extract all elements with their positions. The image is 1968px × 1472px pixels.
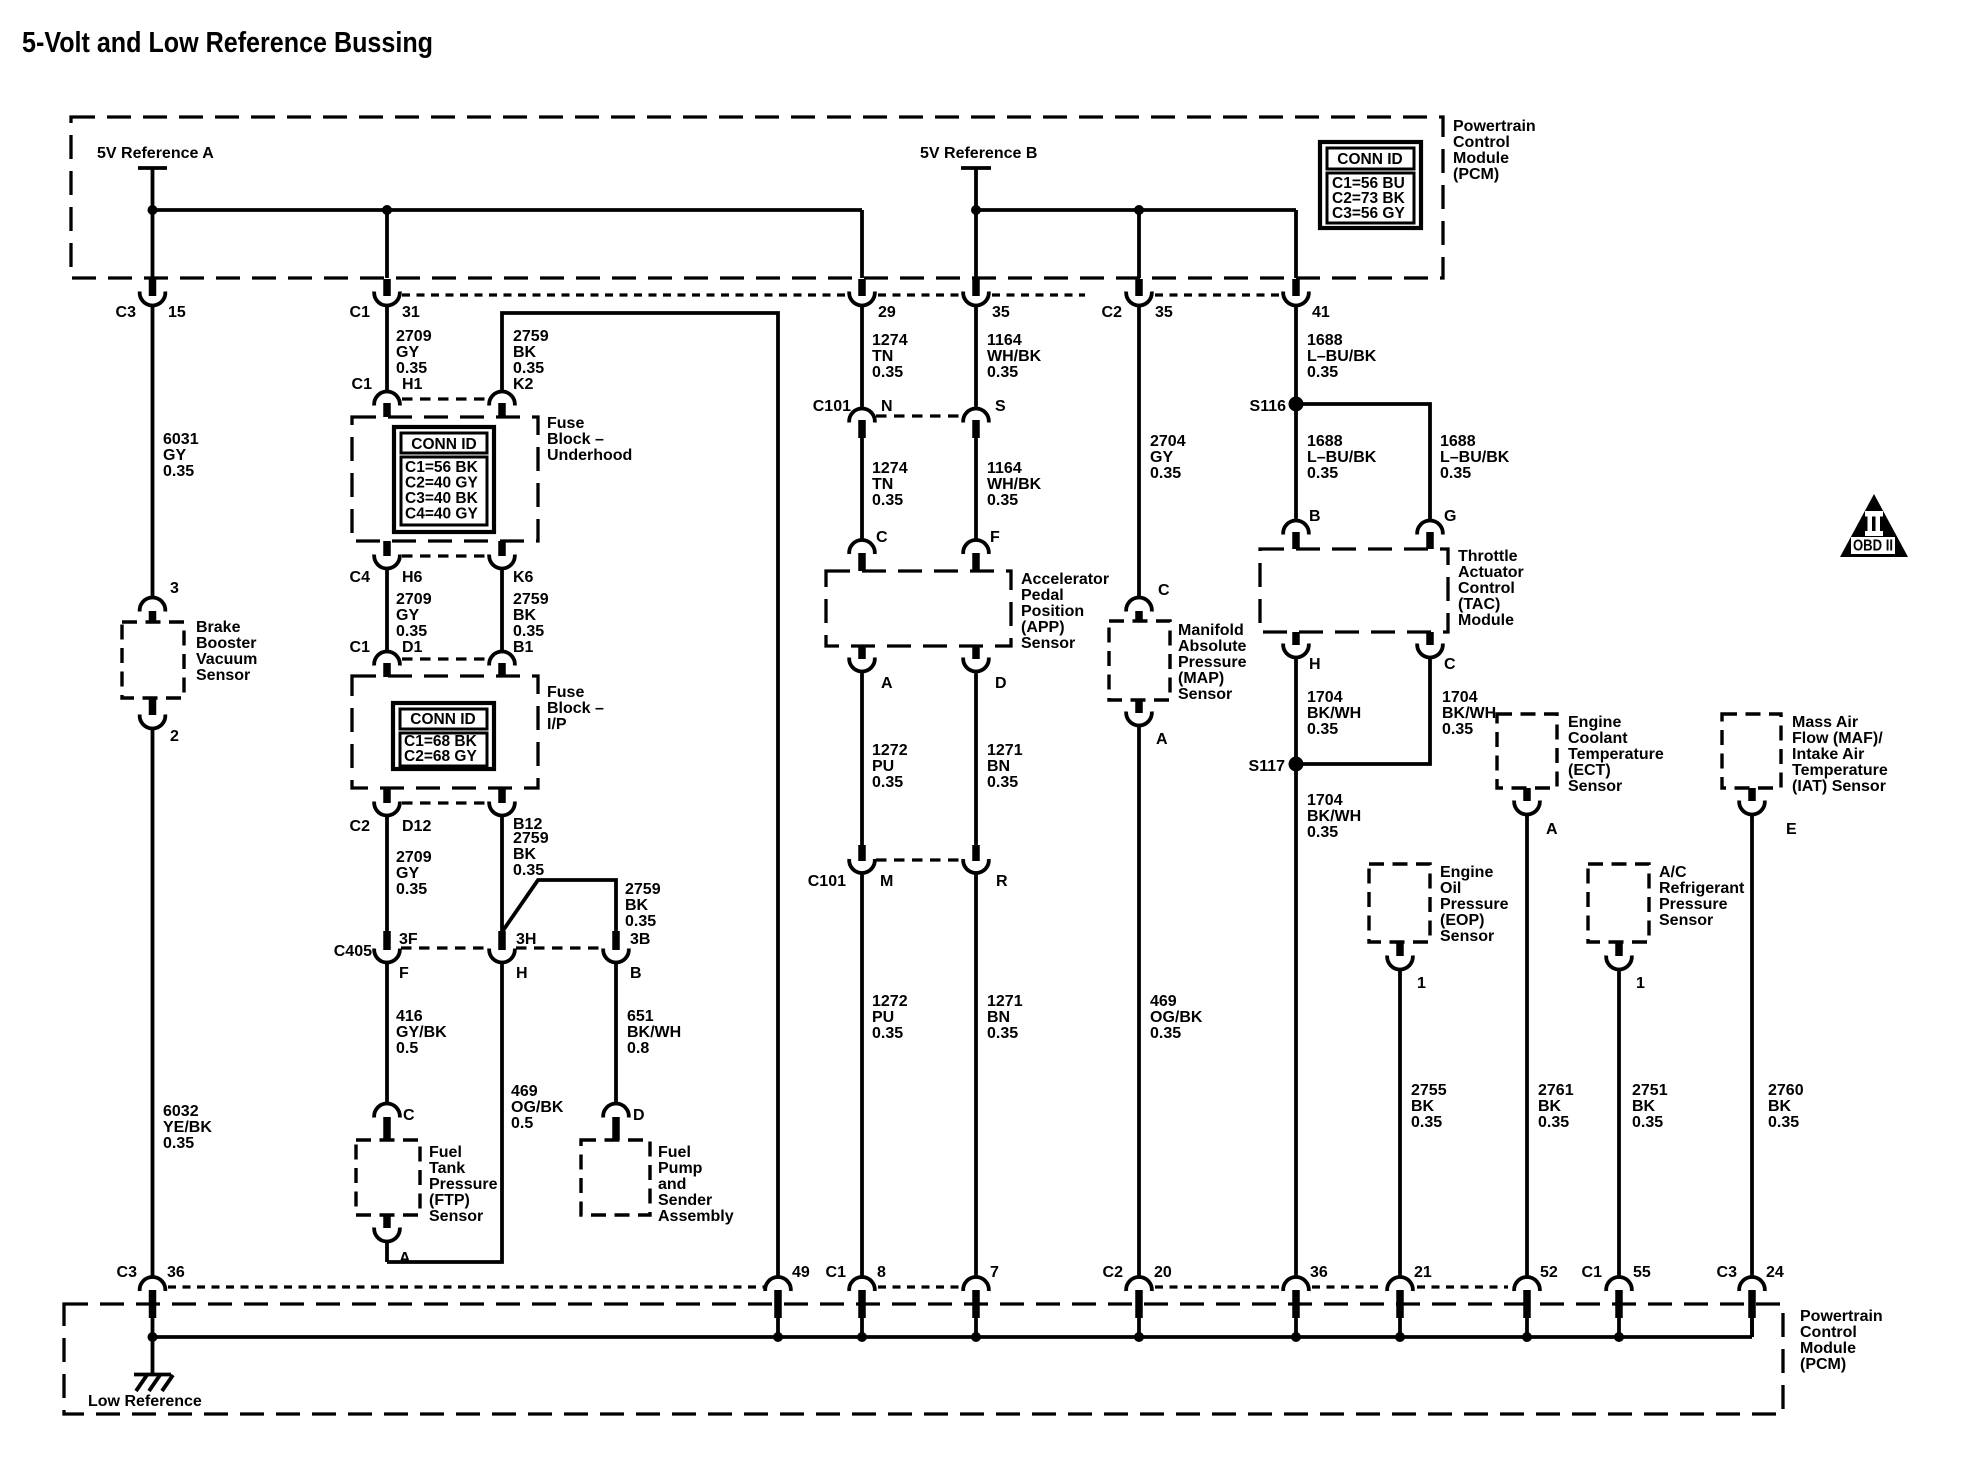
svg-text:C405: C405 xyxy=(334,943,372,960)
connector Fuel Pump pin D xyxy=(603,1104,644,1140)
wire C2-35 drop inside PCM xyxy=(1137,210,1141,278)
svg-text:Module: Module xyxy=(1800,1340,1856,1357)
junction dot low reference bus at 36 xyxy=(1291,1332,1301,1342)
svg-text:Block –: Block – xyxy=(547,431,604,448)
svg-text:35: 35 xyxy=(1155,304,1173,321)
wire 469 OG/BK 0.5 xyxy=(387,963,502,1262)
svg-text:D: D xyxy=(995,675,1007,692)
wire 2709 GY 0.35 segment 2 xyxy=(385,569,389,651)
svg-text:0.35: 0.35 xyxy=(163,1135,194,1152)
svg-text:41: 41 xyxy=(1312,304,1330,321)
svg-text:3F: 3F xyxy=(399,931,418,948)
svg-text:1272: 1272 xyxy=(872,742,908,759)
connector face dotted C101 M-R xyxy=(876,858,962,861)
connector PCM bottom C3 pin 36 xyxy=(140,1277,166,1337)
svg-text:Sensor: Sensor xyxy=(1178,686,1232,703)
svg-text:6031: 6031 xyxy=(163,431,199,448)
svg-text:7: 7 xyxy=(990,1264,999,1281)
wire 2709 GY 0.35 segment 1 xyxy=(385,306,389,391)
connector PCM pin 35 xyxy=(963,279,989,305)
junction dot bus B at C2-35 tap xyxy=(1134,205,1144,215)
connector C405 pin 3B/B xyxy=(603,931,650,982)
svg-text:Pressure: Pressure xyxy=(429,1176,498,1193)
connector TAC module pin B xyxy=(1283,508,1320,549)
connector PCM bottom pin 7 xyxy=(963,1277,989,1337)
svg-text:Fuel: Fuel xyxy=(658,1144,691,1161)
svg-text:Flow (MAF)/: Flow (MAF)/ xyxy=(1792,730,1883,747)
connector APP sensor pin F xyxy=(963,529,1000,571)
connector C101 pin N xyxy=(813,398,893,438)
svg-text:C2=40 GY: C2=40 GY xyxy=(405,475,478,492)
svg-text:B1: B1 xyxy=(513,639,534,656)
svg-text:Sensor: Sensor xyxy=(1021,635,1075,652)
svg-text:Fuse: Fuse xyxy=(547,684,584,701)
junction dot low reference bus at 52 xyxy=(1522,1332,1532,1342)
svg-text:1704: 1704 xyxy=(1307,689,1343,706)
svg-text:0.35: 0.35 xyxy=(1307,364,1338,381)
svg-text:Sensor: Sensor xyxy=(1659,912,1713,929)
wire S116 branch to G xyxy=(1296,404,1430,520)
wire 2751 BK 0.35 xyxy=(1617,970,1621,1277)
svg-text:1: 1 xyxy=(1417,975,1426,992)
svg-text:36: 36 xyxy=(1310,1264,1328,1281)
svg-text:24: 24 xyxy=(1766,1264,1784,1281)
svg-text:0.35: 0.35 xyxy=(625,913,656,930)
svg-text:469: 469 xyxy=(1150,993,1177,1010)
connector APP sensor pin A xyxy=(849,646,893,692)
svg-text:Assembly: Assembly xyxy=(658,1208,734,1225)
junction dot bus B at reference B xyxy=(971,205,981,215)
component Mass Air Flow / Intake Air Temperature Sensor (dashed box) xyxy=(1722,714,1781,788)
wire 2759 BK 0.35 branch to 3B xyxy=(502,880,616,934)
svg-text:L–BU/BK: L–BU/BK xyxy=(1440,449,1510,466)
junction dot low reference bus at C3-36 xyxy=(148,1332,158,1342)
wire 1704 BK/WH 0.35 segment 3 xyxy=(1294,764,1298,1277)
connector face dotted H1-K2 xyxy=(402,397,489,400)
PCM top module box (dashed) xyxy=(71,117,1443,278)
svg-text:(MAP): (MAP) xyxy=(1178,670,1224,687)
wire 416 GY/BK 0.5 xyxy=(385,963,389,1103)
connector MAP sensor pin A xyxy=(1126,700,1168,748)
svg-text:I/P: I/P xyxy=(547,716,567,733)
svg-text:F: F xyxy=(990,529,1000,546)
svg-text:0.35: 0.35 xyxy=(872,1025,903,1042)
svg-text:1274: 1274 xyxy=(872,460,908,477)
connector face dotted C101 N-S xyxy=(876,414,962,417)
svg-text:BN: BN xyxy=(987,1009,1010,1026)
svg-text:2751: 2751 xyxy=(1632,1082,1668,1099)
svg-text:2755: 2755 xyxy=(1411,1082,1447,1099)
svg-text:GY: GY xyxy=(1150,449,1173,466)
svg-text:2709: 2709 xyxy=(396,591,432,608)
svg-text:BK/WH: BK/WH xyxy=(627,1024,681,1041)
node 5V Reference B xyxy=(920,145,1037,168)
svg-text:Fuel: Fuel xyxy=(429,1144,462,1161)
svg-text:C1: C1 xyxy=(352,376,373,393)
wire 1271 BN 0.35 segment 2 xyxy=(974,873,978,1277)
svg-text:0.35: 0.35 xyxy=(872,492,903,509)
svg-text:0.35: 0.35 xyxy=(163,463,194,480)
svg-text:Throttle: Throttle xyxy=(1458,548,1518,565)
svg-text:0.35: 0.35 xyxy=(987,364,1018,381)
svg-text:1271: 1271 xyxy=(987,742,1023,759)
svg-text:1274: 1274 xyxy=(872,332,908,349)
svg-text:(TAC): (TAC) xyxy=(1458,596,1500,613)
svg-text:BK: BK xyxy=(1632,1098,1656,1115)
svg-text:2: 2 xyxy=(170,728,179,745)
svg-text:Block –: Block – xyxy=(547,700,604,717)
svg-text:Brake: Brake xyxy=(196,619,241,636)
svg-text:OG/BK: OG/BK xyxy=(1150,1009,1203,1026)
svg-text:A: A xyxy=(1156,731,1168,748)
svg-text:2709: 2709 xyxy=(396,849,432,866)
svg-text:1272: 1272 xyxy=(872,993,908,1010)
svg-text:D: D xyxy=(633,1107,645,1124)
connector C101 pin S xyxy=(963,398,1006,438)
junction dot bus A at pin 31 tap xyxy=(382,205,392,215)
svg-text:36: 36 xyxy=(167,1264,185,1281)
svg-text:C3: C3 xyxy=(116,304,137,321)
svg-text:1: 1 xyxy=(1636,975,1645,992)
wire FTP A to 469 junction xyxy=(385,1242,389,1262)
connector Brake Booster pin 2 xyxy=(140,698,179,745)
svg-text:Engine: Engine xyxy=(1440,864,1493,881)
svg-text:C: C xyxy=(876,529,888,546)
svg-text:1164: 1164 xyxy=(987,332,1022,349)
svg-text:C: C xyxy=(1444,656,1456,673)
svg-text:0.35: 0.35 xyxy=(396,881,427,898)
svg-text:A/C: A/C xyxy=(1659,864,1687,881)
svg-text:C1: C1 xyxy=(350,639,371,656)
wire 651 BK/WH 0.8 xyxy=(614,963,618,1103)
svg-text:0.35: 0.35 xyxy=(1150,465,1181,482)
wire low reference bus xyxy=(153,1335,1753,1339)
wire 2761 BK 0.35 xyxy=(1525,815,1529,1277)
PCM bottom module box (dashed) xyxy=(64,1304,1783,1414)
wire 2759 BK 0.35 segment 3 xyxy=(500,816,504,934)
svg-text:15: 15 xyxy=(168,304,186,321)
svg-text:C: C xyxy=(1158,582,1170,599)
svg-text:5V Reference A: 5V Reference A xyxy=(97,145,214,162)
svg-text:0.35: 0.35 xyxy=(1768,1114,1799,1131)
svg-text:Engine: Engine xyxy=(1568,714,1621,731)
connector C101 pin M xyxy=(808,845,894,890)
wire 5V bus B xyxy=(976,208,1296,212)
CONN ID table (Fuse Block I/P) xyxy=(393,703,494,769)
wire 2759 BK 0.35 segment 2 xyxy=(500,569,504,651)
component Engine Coolant Temperature Sensor (dashed box) xyxy=(1497,714,1557,788)
wire 1704 BK/WH 0.35 H leg xyxy=(1294,658,1298,764)
svg-text:(EOP): (EOP) xyxy=(1440,912,1484,929)
svg-text:20: 20 xyxy=(1154,1264,1172,1281)
svg-text:Powertrain: Powertrain xyxy=(1453,118,1536,135)
svg-text:D12: D12 xyxy=(402,818,431,835)
svg-text:GY: GY xyxy=(163,447,186,464)
svg-text:0.35: 0.35 xyxy=(1307,465,1338,482)
svg-text:CONN ID: CONN ID xyxy=(411,436,476,453)
connector C101 pin R xyxy=(963,845,1008,890)
svg-text:Intake Air: Intake Air xyxy=(1792,746,1864,763)
wire 2760 BK 0.35 xyxy=(1750,815,1754,1277)
CONN ID table (Fuse Block Underhood) xyxy=(394,427,494,532)
junction dot low reference bus at 21 xyxy=(1395,1332,1405,1342)
wire 1272 PU 0.35 segment 1 xyxy=(860,672,864,845)
svg-text:52: 52 xyxy=(1540,1264,1558,1281)
component Engine Oil Pressure Sensor (dashed box) xyxy=(1369,864,1430,942)
wire 1274 TN 0.35 segment 1 xyxy=(860,306,864,408)
svg-text:OG/BK: OG/BK xyxy=(511,1099,564,1116)
wire 6032 YE/BK 0.35 xyxy=(151,729,155,1277)
svg-text:A: A xyxy=(399,1250,411,1267)
svg-text:0.35: 0.35 xyxy=(1442,721,1473,738)
connector face dashed C405 xyxy=(401,946,489,949)
junction dot low reference bus at 55 xyxy=(1614,1332,1624,1342)
svg-text:C2: C2 xyxy=(350,818,371,835)
svg-text:M: M xyxy=(880,873,893,890)
svg-text:C4: C4 xyxy=(350,569,371,586)
svg-text:0.35: 0.35 xyxy=(1307,721,1338,738)
svg-text:21: 21 xyxy=(1414,1264,1432,1281)
svg-text:8: 8 xyxy=(877,1264,886,1281)
svg-text:2759: 2759 xyxy=(513,328,549,345)
svg-text:S117: S117 xyxy=(1249,758,1286,775)
svg-text:BK/WH: BK/WH xyxy=(1442,705,1496,722)
CONN ID table (PCM top) xyxy=(1320,142,1421,228)
junction dot bus A at reference A xyxy=(148,205,158,215)
splice S116 xyxy=(1289,397,1304,412)
svg-text:C: C xyxy=(403,1107,415,1124)
wire 2755 BK 0.35 xyxy=(1398,970,1402,1277)
svg-text:L–BU/BK: L–BU/BK xyxy=(1307,449,1377,466)
connector Fuse Block Underhood C4 pin H6 xyxy=(350,541,423,586)
svg-text:S: S xyxy=(995,398,1006,415)
connector Fuse Block I/P pin B1 xyxy=(489,639,533,677)
svg-text:BK: BK xyxy=(625,897,649,914)
svg-text:2761: 2761 xyxy=(1538,1082,1574,1099)
svg-text:0.8: 0.8 xyxy=(627,1040,649,1057)
svg-text:0.35: 0.35 xyxy=(1440,465,1471,482)
svg-text:3B: 3B xyxy=(630,931,650,948)
wire 5V bus A xyxy=(153,208,863,212)
wire 1704 BK/WH 0.35 C leg xyxy=(1296,658,1430,764)
connector PCM C1 pin 31 xyxy=(374,279,400,305)
connector TAC module pin H xyxy=(1283,632,1320,673)
svg-text:Pedal: Pedal xyxy=(1021,587,1064,604)
svg-text:Low Reference: Low Reference xyxy=(88,1393,202,1410)
wire 1164 WH/BK 0.35 segment 2 xyxy=(974,438,978,540)
svg-text:R: R xyxy=(996,873,1008,890)
svg-text:1271: 1271 xyxy=(987,993,1023,1010)
connector PCM pin 41 xyxy=(1283,279,1309,305)
symbol OBD II triangle xyxy=(1840,494,1908,557)
svg-text:5V Reference B: 5V Reference B xyxy=(920,145,1037,162)
svg-text:0.35: 0.35 xyxy=(513,862,544,879)
svg-text:Vacuum: Vacuum xyxy=(196,651,257,668)
svg-text:0.35: 0.35 xyxy=(1307,824,1338,841)
connector PCM bottom C3 pin 24 xyxy=(1739,1277,1765,1337)
wire 1274 TN 0.35 segment 2 xyxy=(860,438,864,540)
svg-text:0.35: 0.35 xyxy=(513,623,544,640)
svg-text:PU: PU xyxy=(872,1009,894,1026)
wire pin31 drop inside PCM xyxy=(385,210,389,278)
wire 1688 L-BU/BK 0.35 segment 2 xyxy=(1294,404,1298,520)
svg-text:1688: 1688 xyxy=(1307,332,1343,349)
wire 2709 GY 0.35 segment 3 xyxy=(385,816,389,934)
component Fuse Block - I/P (dashed box) xyxy=(352,676,538,788)
svg-text:GY: GY xyxy=(396,344,419,361)
svg-text:Module: Module xyxy=(1458,612,1514,629)
connector TAC module pin G xyxy=(1417,508,1456,549)
ground symbol Low Reference xyxy=(134,1375,173,1392)
svg-text:0.35: 0.35 xyxy=(872,364,903,381)
connector Brake Booster pin 3 xyxy=(140,580,179,622)
svg-text:(ECT): (ECT) xyxy=(1568,762,1611,779)
connector Fuse Block I/P C1 pin D1 xyxy=(350,639,423,677)
svg-text:2759: 2759 xyxy=(513,830,549,847)
svg-text:A: A xyxy=(1546,821,1558,838)
wire 2759 BK 0.35 segment 1 (K2 feed) xyxy=(502,313,778,1277)
component Fuse Block - Underhood (dashed box) xyxy=(352,417,538,541)
connector face dotted D12-B12 xyxy=(402,801,489,804)
wire bus riser to C3-24 xyxy=(1750,1318,1754,1337)
svg-text:WH/BK: WH/BK xyxy=(987,348,1042,365)
wire 469 OG/BK 0.35 xyxy=(1137,726,1141,1277)
svg-text:0.35: 0.35 xyxy=(1538,1114,1569,1131)
svg-text:Position: Position xyxy=(1021,603,1084,620)
svg-text:Temperature: Temperature xyxy=(1568,746,1664,763)
connector face dotted D1-B1 xyxy=(402,657,489,660)
svg-text:Mass Air: Mass Air xyxy=(1792,714,1858,731)
node 5V Reference A xyxy=(97,145,214,168)
svg-text:BK: BK xyxy=(1538,1098,1562,1115)
wire 6031 GY 0.35 xyxy=(151,306,155,597)
svg-text:0.35: 0.35 xyxy=(396,360,427,377)
svg-text:Absolute: Absolute xyxy=(1178,638,1247,655)
connector PCM bottom pin 52 xyxy=(1514,1277,1540,1337)
wire pin41 drop inside PCM xyxy=(1294,210,1298,278)
svg-text:BN: BN xyxy=(987,758,1010,775)
svg-text:C2=68 GY: C2=68 GY xyxy=(404,748,477,765)
wire ground tap xyxy=(151,1337,155,1375)
svg-text:31: 31 xyxy=(402,304,420,321)
svg-text:0.35: 0.35 xyxy=(1632,1114,1663,1131)
connector PCM bottom C1 pin 8 xyxy=(849,1277,875,1337)
svg-text:Tank: Tank xyxy=(429,1160,465,1177)
connector face dotted line PCM top xyxy=(402,293,848,296)
svg-text:Pressure: Pressure xyxy=(1440,896,1509,913)
svg-text:G: G xyxy=(1444,508,1456,525)
svg-text:C3: C3 xyxy=(1717,1264,1738,1281)
wire 1272 PU 0.35 segment 2 xyxy=(860,873,864,1277)
svg-text:C3: C3 xyxy=(117,1264,138,1281)
connector MAP sensor pin C xyxy=(1126,582,1170,621)
connector C405 pin 3H/H xyxy=(489,931,536,982)
svg-text:0.35: 0.35 xyxy=(513,360,544,377)
svg-text:6032: 6032 xyxy=(163,1103,199,1120)
svg-text:L–BU/BK: L–BU/BK xyxy=(1307,348,1377,365)
component A/C Refrigerant Pressure Sensor (dashed box) xyxy=(1588,864,1649,942)
component Manifold Absolute Pressure Sensor (dashed box) xyxy=(1109,621,1170,700)
component Brake Booster Vacuum Sensor (dashed box) xyxy=(122,622,184,698)
svg-text:0.35: 0.35 xyxy=(1411,1114,1442,1131)
svg-text:Sensor: Sensor xyxy=(1440,928,1494,945)
connector PCM bottom pin 21 xyxy=(1387,1277,1413,1337)
svg-text:BK/WH: BK/WH xyxy=(1307,808,1361,825)
svg-text:PU: PU xyxy=(872,758,894,775)
svg-text:Coolant: Coolant xyxy=(1568,730,1628,747)
connector PCM bottom pin 49 xyxy=(765,1277,791,1337)
svg-text:416: 416 xyxy=(396,1008,423,1025)
svg-text:3H: 3H xyxy=(516,931,536,948)
connector A/C pressure sensor pin 1 xyxy=(1606,942,1645,992)
connector Fuse Block I/P C2 pin D12 xyxy=(350,788,432,835)
svg-text:(APP): (APP) xyxy=(1021,619,1065,636)
connector Fuse Block I/P pin B12 xyxy=(489,788,542,833)
svg-text:GY: GY xyxy=(396,865,419,882)
svg-text:C101: C101 xyxy=(813,398,851,415)
svg-text:1704: 1704 xyxy=(1307,792,1343,809)
svg-text:C1: C1 xyxy=(350,304,371,321)
wire 5V Reference A drop xyxy=(151,168,155,278)
svg-text:Pressure: Pressure xyxy=(1178,654,1247,671)
svg-text:Control: Control xyxy=(1453,134,1510,151)
svg-text:(IAT) Sensor: (IAT) Sensor xyxy=(1792,778,1886,795)
svg-text:(PCM): (PCM) xyxy=(1453,166,1499,183)
component Fuel Tank Pressure Sensor (dashed box) xyxy=(356,1140,420,1215)
svg-text:Powertrain: Powertrain xyxy=(1800,1308,1883,1325)
svg-text:H1: H1 xyxy=(402,376,423,393)
svg-text:Actuator: Actuator xyxy=(1458,564,1524,581)
svg-text:C3=40 BK: C3=40 BK xyxy=(405,490,479,507)
wire 1271 BN 0.35 segment 1 xyxy=(974,672,978,845)
svg-text:0.35: 0.35 xyxy=(872,774,903,791)
junction dot low reference bus at 49 xyxy=(773,1332,783,1342)
svg-text:F: F xyxy=(399,965,409,982)
svg-text:BK: BK xyxy=(1768,1098,1792,1115)
svg-text:H6: H6 xyxy=(402,569,423,586)
svg-text:GY/BK: GY/BK xyxy=(396,1024,447,1041)
svg-text:Underhood: Underhood xyxy=(547,447,632,464)
svg-text:Accelerator: Accelerator xyxy=(1021,571,1109,588)
svg-text:Pressure: Pressure xyxy=(1659,896,1728,913)
svg-text:E: E xyxy=(1786,821,1797,838)
svg-text:Module: Module xyxy=(1453,150,1509,167)
svg-text:Pump: Pump xyxy=(658,1160,703,1177)
connector APP sensor pin C xyxy=(849,529,888,571)
svg-text:Booster: Booster xyxy=(196,635,256,652)
svg-text:TN: TN xyxy=(872,476,893,493)
svg-text:C1=56 BK: C1=56 BK xyxy=(405,459,479,476)
svg-text:and: and xyxy=(658,1176,686,1193)
connector C405 pin 3F/F xyxy=(374,931,418,982)
wire 5V Reference B drop xyxy=(974,168,978,278)
svg-text:29: 29 xyxy=(878,304,896,321)
svg-text:(FTP): (FTP) xyxy=(429,1192,470,1209)
connector PCM bottom C2 pin 20 xyxy=(1126,1277,1152,1337)
svg-text:1688: 1688 xyxy=(1307,433,1343,450)
svg-text:C4=40 GY: C4=40 GY xyxy=(405,506,478,523)
svg-text:1704: 1704 xyxy=(1442,689,1478,706)
connector face dotted H6-K6 xyxy=(402,554,489,557)
connector PCM C3 pin 15 xyxy=(140,279,166,305)
wire 1164 WH/BK 0.35 segment 1 xyxy=(974,306,978,408)
svg-text:Temperature: Temperature xyxy=(1792,762,1888,779)
component Fuel Pump and Sender Assembly (dashed box) xyxy=(581,1140,650,1215)
svg-text:2704: 2704 xyxy=(1150,433,1186,450)
svg-text:WH/BK: WH/BK xyxy=(987,476,1042,493)
svg-text:N: N xyxy=(881,398,893,415)
svg-text:Fuse: Fuse xyxy=(547,415,584,432)
